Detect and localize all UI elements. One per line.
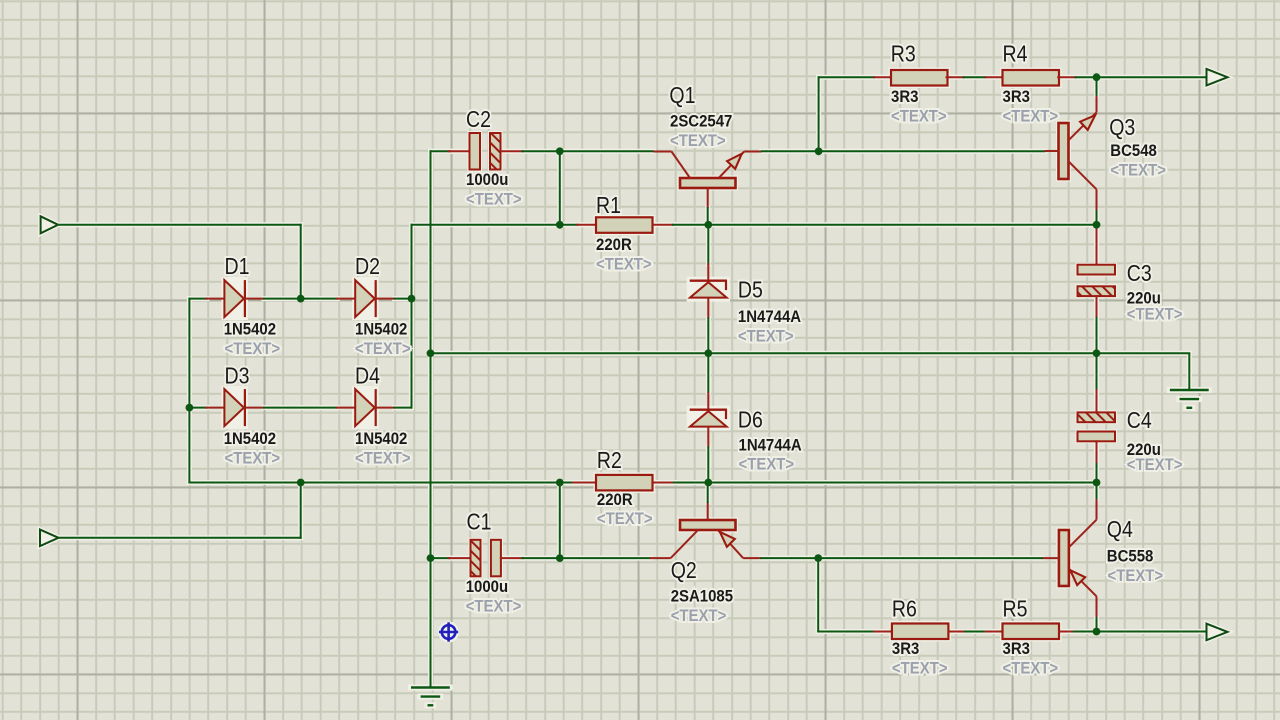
svg-text:3R3: 3R3 — [1003, 640, 1031, 658]
svg-text:Q4: Q4 — [1107, 516, 1133, 542]
svg-text:<TEXT>: <TEXT> — [1003, 660, 1059, 678]
junction mid rail at C3-C4 — [1093, 349, 1101, 357]
wire D3 cathode to D4 anode — [264, 407, 338, 409]
junction D2 cathode node — [408, 295, 416, 303]
svg-text:D5: D5 — [738, 277, 763, 303]
svg-text:<TEXT>: <TEXT> — [1110, 162, 1166, 180]
capacitor C1 hatched plate — [471, 540, 481, 577]
terminal output OUT1 — [1207, 69, 1228, 86]
svg-text:1N4744A: 1N4744A — [739, 437, 803, 455]
pin R2 right — [653, 482, 674, 484]
svg-text:<TEXT>: <TEXT> — [739, 456, 795, 474]
svg-text:D6: D6 — [738, 407, 763, 433]
pin C3 bottom — [1096, 296, 1098, 318]
svg-text:1N4744A: 1N4744A — [738, 308, 802, 326]
wire IN1 to corner — [58, 224, 301, 226]
wire between R6 and R5 — [965, 631, 986, 633]
wire Q3 collector down to junction — [1096, 211, 1098, 225]
svg-text:R6: R6 — [892, 596, 917, 622]
pin R3 right — [947, 76, 964, 78]
svg-text:1N5402: 1N5402 — [224, 321, 276, 339]
junction input1 / D1-D2 node — [297, 295, 305, 303]
svg-text:<TEXT>: <TEXT> — [466, 598, 522, 616]
svg-text:BC558: BC558 — [1107, 548, 1154, 566]
svg-text:Q1: Q1 — [669, 83, 695, 109]
junction Q1 emitter node — [815, 147, 823, 155]
ground GND2 — [411, 688, 450, 706]
wire Q1 base node down to D5 — [707, 225, 709, 264]
terminal input IN1 — [41, 216, 59, 233]
svg-text:<TEXT>: <TEXT> — [355, 340, 411, 358]
pin C2 right — [501, 150, 523, 152]
wire R5 to output terminal — [1074, 631, 1207, 633]
wire C2 left to ground rail corner — [431, 150, 451, 152]
wire Q1 emitter to Q3 base — [762, 150, 1045, 152]
junction Q3 collector / C3 node — [1093, 221, 1101, 229]
wire C2 to Q1 collector — [523, 150, 654, 152]
pin C1 left — [449, 557, 472, 559]
junction C2-R1 vertical bottom — [556, 221, 564, 229]
wire left rail vertical — [188, 299, 190, 483]
pin R5 left — [986, 631, 1004, 633]
ground GND1 — [1170, 353, 1209, 408]
svg-text:C4: C4 — [1127, 408, 1152, 434]
svg-text:2SA1085: 2SA1085 — [671, 588, 733, 606]
pin C2 left — [449, 150, 471, 152]
svg-text:C2: C2 — [466, 106, 491, 132]
svg-text:<TEXT>: <TEXT> — [466, 191, 522, 209]
pin R6 left — [874, 631, 893, 633]
svg-text:3R3: 3R3 — [892, 640, 920, 658]
wire mid rail to right ground — [1097, 352, 1190, 354]
pin R6 right — [948, 631, 965, 633]
wire C4 to lower bias junction — [1096, 464, 1098, 483]
transistor Q4 — [1042, 498, 1097, 618]
diode D4 — [337, 389, 395, 426]
junction C1-R2 vertical top — [556, 479, 564, 487]
wire mid ground rail — [431, 352, 1097, 354]
svg-text:<TEXT>: <TEXT> — [355, 450, 411, 468]
svg-text:3R3: 3R3 — [1003, 88, 1031, 106]
wire top rail from Q1 emitter node to R3 — [819, 76, 874, 78]
wire D2 cathode rail vertical — [411, 225, 413, 408]
svg-text:220R: 220R — [597, 491, 633, 509]
svg-text:<TEXT>: <TEXT> — [1127, 306, 1183, 324]
wire C3 to mid rail — [1096, 318, 1098, 353]
svg-text:1N5402: 1N5402 — [355, 321, 407, 339]
wire mid rail to C4 — [1096, 353, 1098, 391]
svg-text:<TEXT>: <TEXT> — [596, 256, 652, 274]
svg-text:D3: D3 — [225, 363, 250, 389]
svg-text:<TEXT>: <TEXT> — [738, 328, 794, 346]
wire input2 vertical — [300, 483, 302, 538]
svg-text:220R: 220R — [596, 236, 632, 254]
svg-text:R2: R2 — [597, 448, 622, 474]
svg-text:<TEXT>: <TEXT> — [597, 510, 653, 528]
junction R1 / Q1 base / D5 node — [704, 221, 712, 229]
wire Q4 bottom pin to output rail — [1096, 618, 1098, 632]
svg-text:<TEXT>: <TEXT> — [891, 108, 947, 126]
wire input2 horizontal — [58, 537, 301, 539]
pin R2 left — [573, 482, 597, 484]
svg-text:1N5402: 1N5402 — [224, 430, 276, 448]
junction bottom rail / Q4 emitter — [1093, 628, 1101, 636]
junction Q2 emitter node — [814, 554, 822, 562]
pin C4 bottom — [1096, 441, 1098, 464]
pin R3 left — [874, 76, 892, 78]
wire bottom rail left — [818, 631, 874, 633]
resistor R1 — [596, 217, 653, 233]
wire Q2 emitter to Q4 base — [761, 557, 1042, 559]
wire mid rail to D6 cathode — [707, 353, 709, 392]
svg-text:<TEXT>: <TEXT> — [1003, 108, 1059, 126]
terminal output OUT2 — [1207, 624, 1228, 641]
svg-text:2SC2547: 2SC2547 — [670, 113, 732, 131]
capacitor C3 hatched plate — [1078, 286, 1116, 296]
resistor R3 — [891, 70, 948, 86]
wire ground rail vertical — [430, 151, 432, 687]
svg-text:R3: R3 — [891, 41, 916, 67]
svg-text:1000u: 1000u — [466, 578, 508, 596]
wire Q1 emitter node up to top rail — [818, 77, 820, 151]
pin R1 right — [653, 224, 673, 226]
svg-text:<TEXT>: <TEXT> — [892, 660, 948, 678]
wire Q2 emitter node down — [817, 558, 819, 631]
capacitor C3 positive plate — [1078, 265, 1116, 275]
resistor R4 — [1003, 70, 1060, 86]
wire D5 anode to mid rail — [707, 318, 709, 353]
capacitor C2 positive plate — [470, 133, 481, 170]
transistor Q3 — [1045, 95, 1097, 211]
wire C1 to Q2 collector — [523, 557, 650, 559]
svg-text:C1: C1 — [467, 509, 492, 535]
svg-text:D2: D2 — [355, 254, 380, 280]
wire D6 anode down to lower bias wire — [707, 447, 709, 482]
svg-text:R5: R5 — [1003, 596, 1028, 622]
pin R5 right — [1059, 631, 1074, 633]
svg-text:D1: D1 — [225, 254, 250, 280]
transistor Q1 — [653, 152, 761, 209]
svg-text:<TEXT>: <TEXT> — [1108, 567, 1164, 585]
svg-text:Q2: Q2 — [671, 557, 697, 583]
capacitor C4 hatched plate — [1078, 412, 1116, 422]
wire D1 cathode to D2 anode — [264, 298, 338, 300]
wire R2 to Q4 node — [674, 482, 1097, 484]
wire D1 anode corner — [189, 298, 207, 300]
wire junction down to R1 wire — [559, 151, 561, 225]
junction ground rail at C1 — [427, 554, 435, 562]
svg-text:R1: R1 — [596, 192, 621, 218]
svg-text:<TEXT>: <TEXT> — [671, 607, 727, 625]
junction mid rail at D5-D6 — [704, 349, 712, 357]
wire D3 anode stub — [189, 407, 207, 409]
wire Q2 base up — [707, 483, 709, 503]
pin C1 right — [501, 557, 523, 559]
pin C4 top — [1096, 390, 1098, 413]
svg-text:BC548: BC548 — [1110, 142, 1157, 160]
capacitor C1 positive plate — [491, 540, 501, 577]
wire D4 cathode to rail — [394, 407, 411, 409]
zener diode D6 — [690, 392, 727, 447]
svg-text:R4: R4 — [1003, 41, 1028, 67]
svg-text:C3: C3 — [1127, 260, 1152, 286]
resistor R2 — [596, 475, 653, 491]
wire Q3 emitter up to top rail — [1096, 77, 1098, 95]
transistor Q2 — [650, 502, 761, 558]
wire C1-R2 vertical — [559, 483, 561, 559]
resistor R5 — [1003, 624, 1060, 640]
origin marker — [439, 622, 458, 641]
diode D3 — [206, 389, 264, 426]
wire Q1 base down — [707, 208, 709, 225]
pin R1 left — [578, 224, 598, 226]
wire D2 cathode to rail — [394, 298, 411, 300]
svg-text:3R3: 3R3 — [891, 88, 919, 106]
capacitor C2 hatched plate — [490, 133, 501, 170]
svg-text:<TEXT>: <TEXT> — [225, 340, 281, 358]
junction C4 / Q4 node — [1093, 479, 1101, 487]
svg-text:D4: D4 — [355, 363, 380, 389]
junction input2 node — [297, 479, 305, 487]
svg-text:Q3: Q3 — [1109, 114, 1135, 140]
wire R4 to output terminal — [1076, 76, 1207, 78]
zener diode D5 — [690, 263, 727, 318]
wire Q4 top pin to lower bias junction — [1096, 483, 1098, 499]
junction D3 anode node — [186, 404, 194, 412]
junction C2 / Q1 collector node — [556, 147, 564, 155]
junction C1 / R2 node — [556, 554, 564, 562]
svg-text:<TEXT>: <TEXT> — [1127, 456, 1183, 474]
pin C3 top — [1096, 226, 1098, 265]
pin R4 left — [986, 76, 1004, 78]
junction mid rail at ground rail — [427, 349, 435, 357]
svg-text:<TEXT>: <TEXT> — [225, 450, 281, 468]
pin R4 right — [1058, 76, 1075, 78]
svg-text:1000u: 1000u — [466, 171, 508, 189]
terminal input IN2 — [40, 530, 59, 547]
svg-text:1N5402: 1N5402 — [355, 430, 407, 448]
wire IN1 corner down to D1-D2 node — [300, 225, 302, 299]
junction top rail / Q3 collector — [1093, 73, 1101, 81]
resistor R6 — [892, 624, 949, 640]
wire R1 to Q3 collector node — [673, 224, 1097, 226]
diode D1 — [206, 280, 264, 317]
diode D2 — [337, 280, 395, 317]
wire between R3 and R4 — [964, 76, 986, 78]
wire ground rail to C1 — [431, 557, 451, 559]
wire lower bias left segment — [189, 482, 573, 484]
wire upper bias left segment — [412, 224, 578, 226]
capacitor C4 solid plate — [1078, 432, 1116, 442]
junction R2 / Q2 base / D6 node — [704, 479, 712, 487]
svg-text:<TEXT>: <TEXT> — [670, 132, 726, 150]
